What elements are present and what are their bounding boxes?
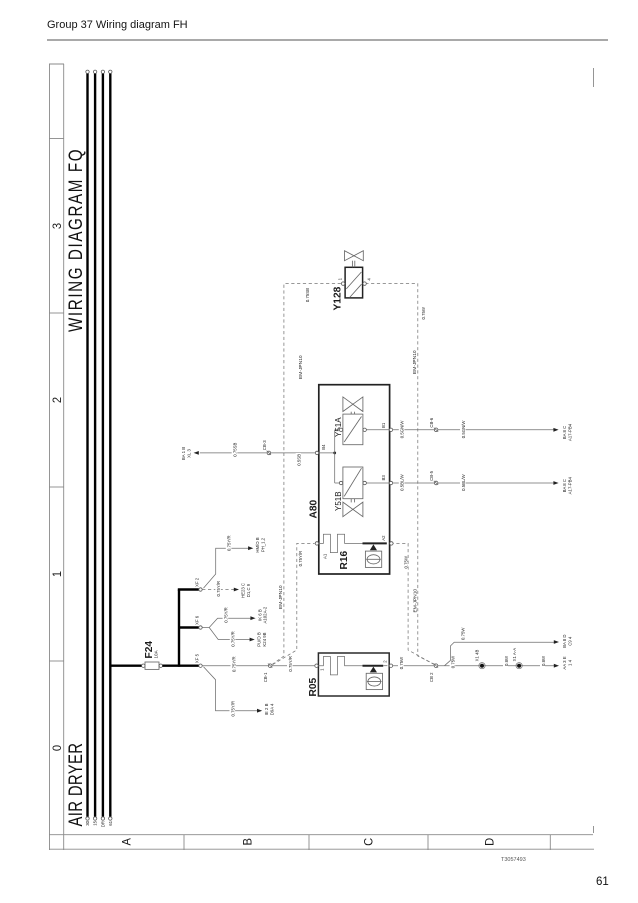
connector CB-6 [434, 428, 438, 432]
wire CB-2 down to splices [438, 665, 554, 667]
heater R16 [319, 534, 363, 552]
svg-text:WIRING DIAGRAM FQ: WIRING DIAGRAM FQ [64, 148, 86, 332]
svg-text:C9 4: C9 4 [568, 636, 573, 646]
connector CB-1 [268, 664, 272, 668]
svg-text:Y128: Y128 [332, 286, 343, 310]
svg-text:3: 3 [50, 222, 64, 229]
wire trunk to XF2 [178, 588, 199, 590]
wire B3 to arrow [393, 482, 435, 484]
connector CB-2 [434, 664, 438, 668]
svg-text:30: 30 [85, 820, 90, 825]
frame inner left line (letter column) [49, 834, 593, 836]
svg-text:0.8W: 0.8W [504, 655, 509, 666]
svg-text:CB-1: CB-1 [263, 672, 268, 682]
svg-text:61: 61 [108, 820, 113, 825]
wire CB-2 branch to BA 8 D [445, 642, 555, 666]
svg-text:A1: A1 [322, 553, 327, 559]
wire B4 to CB-3 and arrow BA 1 B [271, 452, 315, 454]
Y51B pilot valve symbol [343, 502, 353, 517]
harness dashed line3 CB-2 to A80 A2 [393, 543, 434, 664]
component R05 [318, 653, 389, 696]
svg-text:2: 2 [50, 397, 64, 403]
wire XF5 to CB-1 [202, 665, 268, 667]
svg-text:0.75Y/R: 0.75Y/R [288, 656, 293, 672]
svg-text:1 4: 1 4 [568, 659, 573, 666]
frame bottom segment left [593, 826, 595, 833]
harness dashed line2 CB-1 to A80 A1 [273, 543, 315, 664]
grid column tick 0/1 [49, 660, 64, 662]
svg-text:0.5BL/W: 0.5BL/W [400, 473, 405, 490]
svg-text:XF 6: XF 6 [195, 615, 200, 625]
svg-text:0.75W: 0.75W [461, 627, 466, 640]
label 0.75W on line3 [403, 557, 408, 570]
svg-text:0.75SB: 0.75SB [233, 443, 238, 457]
svg-text:0.75Y/R: 0.75Y/R [224, 607, 229, 623]
svg-text:0.8W: 0.8W [541, 655, 546, 666]
svg-text:0.5BL/W: 0.5BL/W [461, 473, 466, 490]
grid row tick A/B [183, 835, 185, 850]
bus wire 61 [109, 74, 111, 817]
Y51A pilot valve symbol [343, 397, 353, 412]
connector CB-5 [434, 481, 438, 485]
A80 pin B4 [315, 451, 318, 454]
svg-text:XL 3: XL 3 [186, 449, 191, 458]
svg-text:AIR DRYER: AIR DRYER [65, 743, 86, 827]
svg-text:BA 8 D: BA 8 D [562, 635, 567, 648]
arrow to BA 8 C (B3) [553, 481, 558, 485]
svg-text:A80: A80 [309, 499, 320, 518]
svg-text:EM-JPN10: EM-JPN10 [412, 350, 418, 374]
svg-text:0.75Y/R: 0.75Y/R [298, 551, 303, 567]
bus wire 30 [86, 74, 88, 817]
svg-text:Y51B: Y51B [334, 491, 343, 511]
svg-text:CB-5: CB-5 [429, 470, 434, 480]
svg-text:0.75W: 0.75W [421, 306, 426, 319]
harness dashed line1 CB-1 to Y128 [272, 284, 341, 665]
svg-text:0.5GN/W: 0.5GN/W [461, 420, 466, 439]
svg-text:2: 2 [383, 660, 388, 663]
component box A80 [319, 385, 390, 574]
connector CB-3 [267, 451, 271, 455]
header text [47, 19, 188, 31]
svg-text:EM-JPN10: EM-JPN10 [412, 589, 418, 613]
R16 thermal bar [363, 542, 387, 544]
svg-text:Y51A: Y51A [334, 417, 343, 437]
svg-text:0.75Y/R: 0.75Y/R [216, 581, 221, 597]
svg-text:0: 0 [50, 744, 64, 751]
arrow to BA 8 C (B1) [553, 428, 558, 432]
svg-text:AA 3 E: AA 3 E [562, 656, 567, 669]
R16 sensor box [365, 551, 381, 567]
svg-text:EM-JPN10: EM-JPN10 [298, 355, 304, 379]
svg-text:X1 A-A: X1 A-A [512, 648, 517, 662]
R05 heater element [318, 657, 362, 675]
svg-text:X1 4B: X1 4B [475, 649, 480, 661]
grid column tick 1/2 [49, 486, 64, 488]
svg-text:0.75W: 0.75W [399, 656, 404, 669]
svg-text:PH_1,2: PH_1,2 [260, 537, 265, 552]
frame bottom segment right [593, 68, 595, 87]
fuse F24 [145, 662, 159, 669]
svg-text:0.75Y/R: 0.75Y/R [231, 631, 236, 647]
grid column tick 2/3 [49, 312, 64, 314]
frame top border [49, 64, 51, 850]
svg-text:A17-PB4: A17-PB4 [567, 423, 572, 441]
bus wire DR [102, 74, 104, 817]
grid column tick 3/end [49, 138, 64, 140]
wire label 0.75Y/R (XF5-CB1) [231, 656, 237, 673]
svg-text:0.75SB: 0.75SB [305, 288, 310, 302]
plot number T3057493 [501, 857, 526, 863]
svg-text:D: D [483, 838, 497, 846]
wire XF6 to IK arrow [209, 618, 251, 627]
wire fuse to XF5 [163, 665, 199, 667]
connector XF 6 [199, 626, 202, 629]
svg-text:XF 5: XF 5 [195, 653, 200, 663]
wire label 0.75Y/R (IE branch) [230, 703, 236, 718]
A80 pin A1 [315, 542, 318, 545]
R16 thermal trigger arrow [370, 544, 377, 550]
svg-text:CB-6: CB-6 [429, 417, 434, 427]
svg-text:0.5GN/W: 0.5GN/W [400, 420, 405, 439]
svg-text:0.75Y/R: 0.75Y/R [227, 535, 232, 551]
splice X1 4B [480, 664, 484, 668]
svg-text:B4: B4 [321, 444, 326, 450]
svg-text:BA 8 C: BA 8 C [562, 479, 567, 492]
svg-text:CB 2: CB 2 [429, 672, 434, 682]
header rule [47, 39, 608, 41]
svg-text:B3: B3 [381, 475, 386, 481]
arrow to HM/O B [248, 546, 253, 550]
wire XF2 dashed to HE arrow [202, 589, 235, 591]
arrow to HE23 C [234, 588, 239, 592]
svg-text:15: 15 [93, 820, 98, 825]
page number 61 [596, 876, 609, 888]
wire XF6 to PU arrow [209, 628, 251, 640]
R05 thermal trigger arrow [370, 667, 377, 673]
svg-text:D1,C 9: D1,C 9 [246, 583, 251, 597]
wire label 0.75Y/R (CB1-R05) [287, 656, 293, 673]
frame right tick [49, 63, 64, 65]
svg-text:1: 1 [337, 277, 342, 280]
connector XF 5 [199, 664, 202, 667]
svg-text:0.5SB: 0.5SB [296, 454, 301, 466]
svg-text:CB-3: CB-3 [262, 440, 267, 450]
arrow to BA 8 D [554, 640, 559, 644]
wire bus61 to fuse [110, 665, 141, 667]
arrow to IK 6 B [250, 616, 255, 620]
svg-text:0.75W: 0.75W [403, 555, 408, 568]
svg-text:R16: R16 [339, 550, 350, 569]
fork XF5 to IE arrow [204, 667, 259, 711]
arrow to IE 2 B [257, 709, 262, 713]
grid row tick C/D [427, 835, 429, 850]
Y128 valve symbol [345, 251, 354, 261]
bus wire 15 [94, 74, 96, 817]
wire CB-1 to R05 pin1 [272, 665, 314, 667]
svg-text:0.75Y/R: 0.75Y/R [230, 701, 235, 717]
wire R05 to CB-2 [393, 665, 434, 667]
svg-text:XF 2: XF 2 [195, 577, 200, 587]
svg-text:B1: B1 [381, 422, 386, 428]
svg-text:A102A-2: A102A-2 [263, 606, 268, 623]
svg-text:0.75Y/R: 0.75Y/R [231, 656, 236, 672]
fork XF6 stub [202, 627, 209, 629]
svg-text:A2: A2 [381, 535, 386, 541]
wire B1 to arrow [393, 429, 435, 431]
svg-text:D9A 4: D9A 4 [269, 703, 274, 715]
svg-text:A17-PB4: A17-PB4 [567, 476, 572, 494]
arrow to AA 3 E [554, 664, 559, 668]
frame inner top line (number row) [63, 64, 65, 850]
svg-text:EM-JPN10: EM-JPN10 [278, 585, 284, 609]
splice X1A-A [517, 664, 521, 668]
svg-text:DR: DR [100, 821, 105, 827]
svg-text:C: C [362, 837, 376, 846]
arrow to BA 1 B [194, 451, 199, 455]
A80 pin B3 [389, 481, 392, 484]
A80 pin A2 [390, 542, 393, 545]
svg-text:4: 4 [366, 278, 371, 281]
wire distribution trunk [178, 590, 180, 667]
connector XF 2 [199, 588, 202, 591]
svg-text:B: B [241, 838, 255, 846]
svg-text:BA 8 C: BA 8 C [562, 426, 567, 439]
R05 thermal bar [363, 665, 384, 667]
svg-text:A: A [120, 838, 134, 846]
svg-text:10A: 10A [154, 649, 159, 658]
svg-text:1: 1 [320, 668, 325, 671]
svg-text:1: 1 [50, 571, 64, 577]
grid row tick D/end [549, 835, 551, 850]
grid row tick B/C [308, 835, 310, 850]
wire B4 internal [319, 452, 335, 454]
wire XF2 to HM arrow [204, 548, 250, 588]
harness dashed line4 CB-2 to Y128 [366, 284, 435, 665]
frame left border [49, 848, 594, 850]
R05 sensor box [366, 673, 382, 689]
svg-text:0.75W: 0.75W [451, 655, 456, 668]
A80 pin B1 [389, 428, 392, 431]
svg-text:K24 9B: K24 9B [262, 632, 267, 646]
wire trunk to XF6 [179, 626, 199, 628]
arrow to PU/O B [250, 638, 255, 642]
svg-text:R05: R05 [308, 677, 319, 696]
